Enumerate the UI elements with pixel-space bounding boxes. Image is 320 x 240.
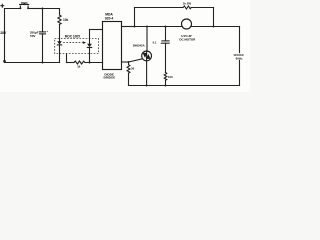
wire top loop left vertical [134, 8, 136, 27]
resistor R5 100 zigzag [164, 72, 167, 80]
photodiode detector [89, 30, 91, 44]
resistor R4 gate 56 zigzag [127, 62, 130, 86]
wire top left from + to switch [5, 8, 21, 10]
wire capacitor branch upper [42, 9, 44, 32]
svg-text:MOC 1005: MOC 1005 [65, 34, 80, 38]
svg-text:920-4: 920-4 [105, 16, 114, 20]
svg-text:DC MOTOR: DC MOTOR [179, 37, 196, 41]
wire detector top to bridge [90, 29, 103, 31]
wire switch to cap node [29, 8, 43, 10]
svg-text:1k: 1k [77, 64, 81, 68]
node junction top loop right [213, 26, 215, 28]
resistor R1 10k zigzag [58, 15, 61, 24]
switch S1 pushbutton [19, 3, 29, 9]
wire top loop right vertical [213, 8, 215, 27]
wire corner into resistor R1 [59, 9, 61, 16]
wire bottom rail right side [129, 85, 240, 87]
capacitor C1 plates [40, 31, 46, 33]
wire resistor to LED [59, 24, 61, 41]
wire base loop vertical [66, 54, 68, 63]
triac Q1 2N6342A [142, 51, 152, 61]
wire bridge right top to row [122, 26, 135, 28]
node junction top loop left [134, 26, 136, 28]
wire capacitor branch lower [42, 34, 44, 63]
node plus terminal label [1, 4, 4, 7]
svg-text:0.1: 0.1 [153, 40, 157, 44]
resistor R2 1k zigzag [74, 61, 85, 64]
resistor R3 1k 2W zigzag [183, 6, 191, 9]
wire top loop horizontal [135, 7, 184, 9]
node capacitor bottom junction [42, 62, 44, 64]
wire control bottom rail [5, 62, 60, 64]
optocoupler U1 MOC 1005 dashed box [55, 39, 99, 54]
wire triac MT1 down [146, 61, 148, 86]
wire AC source right vertical lower [239, 60, 241, 85]
node junction triac MT2 [146, 26, 148, 28]
node snubber top junction [165, 26, 167, 28]
light arrow dashed [63, 42, 82, 44]
diode bridge U2 MDA 920-4 box [103, 22, 122, 70]
wire AC source right vertical upper [239, 27, 241, 53]
node triac MT1 rail junction [146, 85, 148, 87]
wire snubber lower [165, 80, 167, 85]
svg-text:60Hz: 60Hz [236, 56, 243, 60]
svg-text:+: + [46, 29, 48, 33]
wire lower link into bridge [67, 62, 75, 64]
svg-text:56: 56 [131, 67, 135, 71]
wire triac MT2 vertical [146, 27, 148, 52]
node snubber rail junction [165, 85, 167, 87]
wire LED cathode down to rail [59, 45, 61, 63]
svg-text:100: 100 [168, 75, 173, 79]
node detector bottom junction [89, 62, 91, 64]
wire motor row [135, 26, 183, 28]
svg-text:BRIDGE: BRIDGE [104, 76, 116, 80]
wire supply left vertical [4, 9, 6, 63]
wire cap node to resistor corner [43, 8, 60, 10]
LED inside optocoupler [57, 41, 62, 44]
svg-text:28V: 28V [0, 31, 7, 35]
svg-text:10k: 10k [63, 18, 68, 22]
wire bridge right bottom to gate node [122, 61, 129, 63]
svg-text:2N6342A: 2N6342A [133, 43, 146, 47]
capacitor C2 snubber plates [162, 40, 169, 42]
motor B1 circle [182, 19, 192, 29]
svg-text:1k 2W: 1k 2W [183, 2, 192, 6]
wire snubber upper [165, 27, 167, 41]
wire gate lead [129, 59, 143, 62]
node gate junction [127, 61, 129, 63]
node negative terminal dot [3, 60, 6, 63]
wire detector bottom [89, 48, 91, 63]
node junction top of capacitor [42, 8, 44, 10]
wire snubber middle [165, 43, 167, 72]
